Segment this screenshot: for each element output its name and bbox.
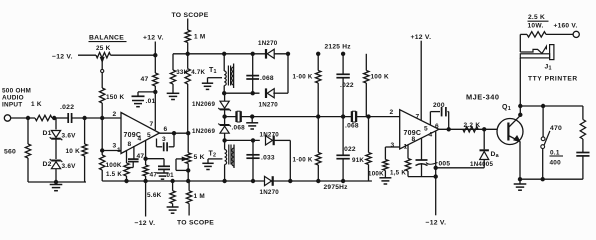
wire collector riser bbox=[519, 60, 522, 117]
svg-text:2125 Hz: 2125 Hz bbox=[325, 44, 352, 51]
pin 3 label U2 bbox=[391, 142, 395, 149]
wire output U2 bbox=[439, 128, 498, 131]
svg-text:D1: D1 bbox=[43, 130, 52, 137]
wire snubber top bbox=[520, 104, 583, 107]
capacitor .033 tank2 bbox=[246, 139, 275, 183]
resistor 33K bbox=[170, 54, 188, 94]
capacitor .022 input bbox=[60, 104, 74, 123]
resistor 47 supply bbox=[141, 73, 159, 86]
wire T2 tap to ground bbox=[208, 159, 222, 163]
pin 2 label U1 bbox=[113, 111, 117, 118]
diode Da 1N4005 bbox=[470, 129, 500, 168]
node input terminal 500-ohm audio bbox=[4, 115, 10, 121]
label +160V bbox=[554, 23, 578, 30]
svg-text:10W.: 10W. bbox=[528, 23, 544, 30]
svg-text:TO SCOPE: TO SCOPE bbox=[177, 220, 214, 227]
wire 470 to cap bbox=[582, 139, 584, 153]
wire riser T2 bbox=[289, 140, 292, 182]
ground T1 tap bbox=[202, 83, 213, 89]
wire pin1 drop bbox=[126, 151, 128, 164]
label J1 bbox=[545, 64, 552, 72]
wire comp U2 bottom bbox=[408, 176, 436, 178]
svg-text:4: 4 bbox=[429, 132, 433, 139]
svg-text:1,5 K: 1,5 K bbox=[390, 170, 406, 177]
svg-text:470: 470 bbox=[550, 125, 562, 132]
capacitor .068 tank1 bbox=[246, 54, 274, 93]
svg-text:Q1: Q1 bbox=[502, 104, 511, 112]
wire emitter drop bbox=[518, 142, 521, 181]
ground 100K U2 bbox=[379, 178, 391, 184]
svg-text:100 K: 100 K bbox=[371, 74, 389, 81]
svg-text:6: 6 bbox=[164, 126, 168, 133]
pin 3 label U1 bbox=[113, 143, 117, 150]
svg-text:.068: .068 bbox=[260, 75, 274, 82]
op-amp U1 709C bbox=[121, 113, 160, 154]
wire -12V bottom rail bbox=[102, 179, 372, 182]
resistor 91K filter2 bbox=[352, 117, 371, 181]
wire 1K to C.022 bbox=[26, 116, 66, 119]
resistor 470 bbox=[550, 120, 586, 140]
label Q1 bbox=[502, 104, 511, 112]
pin 6 label U2 bbox=[435, 123, 439, 130]
transformer T1 core bbox=[228, 66, 230, 86]
transformer T2 core bbox=[229, 145, 231, 165]
svg-text:7: 7 bbox=[416, 114, 420, 121]
resistor 47 comp U1 bbox=[143, 165, 158, 181]
svg-text:1·00 K: 1·00 K bbox=[293, 74, 313, 81]
resistor 1M top bbox=[185, 30, 205, 54]
svg-text:+12 V.: +12 V. bbox=[411, 34, 432, 41]
svg-text:8: 8 bbox=[412, 136, 416, 143]
capacitor .01 bypass bbox=[132, 92, 156, 105]
label -12V bottom bbox=[135, 220, 156, 227]
resistor 150K bbox=[100, 88, 125, 118]
diode 1N270 d bbox=[260, 176, 280, 196]
diode 1N270 c bbox=[260, 132, 280, 146]
wire input to R 1K bbox=[11, 117, 35, 119]
svg-text:.022: .022 bbox=[340, 82, 354, 89]
capacitor 3pF comp U1 bbox=[157, 133, 175, 151]
ground 5.6K bbox=[167, 207, 179, 213]
label TO SCOPE bottom bbox=[177, 220, 214, 227]
wire scope lead bbox=[187, 19, 189, 31]
svg-text:1N270: 1N270 bbox=[258, 40, 278, 47]
wire -12V drop bbox=[145, 181, 147, 217]
pin 5 label U2 bbox=[424, 126, 428, 133]
svg-text:1N2069: 1N2069 bbox=[192, 128, 215, 135]
svg-text:3.6V: 3.6V bbox=[62, 163, 77, 170]
svg-text:.01: .01 bbox=[146, 98, 156, 105]
wire middle rail bbox=[223, 115, 400, 118]
wire plate supply bbox=[520, 34, 527, 52]
wire ground bus left bbox=[28, 181, 86, 183]
wire cap to op-amp pin2 bbox=[73, 116, 121, 119]
transformer T2 primary bbox=[223, 139, 227, 183]
wire 2.2K to base bbox=[483, 128, 486, 131]
transformer T2 secondary bbox=[232, 145, 234, 169]
diode 1N270 a bbox=[258, 40, 278, 59]
pin 6 label U1 bbox=[164, 126, 168, 133]
capacitor .022 filter2 bbox=[336, 117, 356, 183]
label -12V left bbox=[52, 54, 73, 61]
label 0.1 400 bbox=[550, 150, 564, 167]
ground input clipper bbox=[50, 180, 63, 190]
svg-text:TO SCOPE: TO SCOPE bbox=[172, 12, 209, 19]
svg-text:5: 5 bbox=[424, 126, 428, 133]
svg-text:150 K: 150 K bbox=[106, 94, 124, 101]
wire pin3 bbox=[102, 150, 121, 152]
resistor 100K filter2a bbox=[293, 117, 322, 183]
capacitor .068 series right bbox=[345, 111, 359, 129]
resistor 560 bbox=[4, 118, 31, 182]
svg-text:AUDIO: AUDIO bbox=[2, 95, 24, 102]
capacitor .068 series left bbox=[232, 111, 246, 131]
pin 2 label U2 bbox=[390, 109, 394, 116]
wire +12V U2 pin7 bbox=[420, 41, 422, 121]
svg-text:4: 4 bbox=[138, 136, 142, 143]
svg-text:560: 560 bbox=[4, 149, 16, 156]
svg-text:1·00 K: 1·00 K bbox=[293, 157, 313, 164]
ground bypass .01 bbox=[132, 101, 144, 107]
pin 1 label U2 bbox=[404, 144, 408, 151]
svg-text:+12 V.: +12 V. bbox=[143, 35, 164, 42]
ground 33K bbox=[167, 93, 180, 99]
resistor 100K op-amp1 bias bbox=[100, 151, 122, 182]
pin 7 label U1 bbox=[150, 121, 154, 128]
svg-text:.022: .022 bbox=[60, 104, 74, 111]
resistor 100K filter1b bbox=[364, 54, 389, 117]
ground emitter bbox=[514, 179, 527, 190]
svg-text:1 K: 1 K bbox=[31, 101, 42, 108]
svg-text:2.5 K: 2.5 K bbox=[528, 14, 545, 21]
pin 8 label U1 bbox=[128, 141, 132, 148]
wire -12V to 25K bbox=[78, 54, 96, 56]
resistor 1M bottom bbox=[186, 181, 205, 216]
svg-text:INPUT: INPUT bbox=[2, 102, 22, 109]
wire snubber bottom bbox=[520, 178, 583, 181]
svg-text:T1: T1 bbox=[209, 67, 217, 75]
capacitor .01 comp U1 bbox=[146, 159, 175, 179]
svg-text:8: 8 bbox=[128, 141, 132, 148]
wire snubber right drop bbox=[582, 106, 584, 120]
diode 1N270 b bbox=[259, 88, 289, 108]
svg-text:.068: .068 bbox=[232, 125, 246, 132]
svg-text:47: 47 bbox=[137, 153, 145, 160]
svg-text:3.6V: 3.6V bbox=[62, 133, 77, 140]
switch S1 bbox=[541, 106, 550, 179]
wire Da return bbox=[436, 167, 485, 169]
svg-text:J1: J1 bbox=[545, 64, 552, 72]
wire T1 drive rail bbox=[173, 52, 288, 55]
wire 47 to pin7 bbox=[154, 86, 157, 130]
capacitor 200 feedback bbox=[430, 102, 448, 129]
svg-text:1N270: 1N270 bbox=[260, 132, 280, 139]
wire pin4 drop bbox=[144, 141, 147, 166]
wire D1-D2 bbox=[55, 139, 57, 159]
wire T1 bottom row bbox=[223, 92, 260, 95]
diode D1 zener 3.6V bbox=[43, 118, 77, 140]
label 2975 Hz bbox=[324, 184, 349, 191]
svg-text:400: 400 bbox=[550, 160, 562, 167]
transformer T1 secondary bbox=[232, 64, 234, 89]
diode 1N2069 upper bbox=[192, 93, 231, 116]
svg-text:100K: 100K bbox=[368, 171, 384, 178]
svg-text:2.2 K: 2.2 K bbox=[464, 122, 481, 129]
svg-text:5 K: 5 K bbox=[194, 154, 205, 161]
svg-text:MJE-340: MJE-340 bbox=[466, 93, 500, 102]
svg-text:1N2069: 1N2069 bbox=[192, 101, 215, 108]
capacitor .022 filter1 bbox=[336, 52, 354, 117]
resistor 2.2K bbox=[463, 122, 480, 132]
connector J1 phone jack bbox=[520, 45, 554, 60]
op-amp U2 709C bbox=[400, 110, 439, 149]
diode D2 zener 3.6V bbox=[43, 159, 77, 182]
pin 4 label U1 bbox=[138, 136, 142, 143]
label +12V first bbox=[143, 35, 164, 42]
node +160 terminal bbox=[573, 31, 579, 37]
svg-text:005: 005 bbox=[439, 161, 451, 168]
svg-text:−12 V.: −12 V. bbox=[135, 220, 156, 227]
wire pin3 U2 bbox=[385, 147, 399, 160]
wire +12V down bbox=[154, 42, 157, 74]
transformer T1 primary bbox=[224, 54, 226, 93]
resistor 10K bbox=[66, 118, 88, 182]
svg-text:100K: 100K bbox=[106, 162, 122, 169]
wire diode c to riser bbox=[275, 139, 291, 141]
svg-text:1N270: 1N270 bbox=[259, 102, 279, 109]
ground middle rail bbox=[246, 117, 258, 129]
wire output U1 bbox=[160, 132, 190, 135]
svg-text:−12 V.: −12 V. bbox=[52, 54, 73, 61]
svg-text:2: 2 bbox=[390, 109, 394, 116]
capacitor 47pF comp U1 bbox=[127, 146, 145, 168]
ground .01 comp bbox=[157, 173, 168, 179]
resistor 100K filter1a bbox=[293, 52, 321, 117]
svg-text:91K: 91K bbox=[352, 157, 364, 164]
label +12V second bbox=[411, 34, 432, 41]
resistor 1K bbox=[31, 101, 52, 121]
svg-text:TTY PRINTER: TTY PRINTER bbox=[528, 76, 578, 83]
svg-text:200: 200 bbox=[433, 102, 445, 109]
wire upper detector row T2 bbox=[225, 139, 260, 141]
svg-text:2975Hz: 2975Hz bbox=[324, 184, 349, 191]
svg-text:500 OHM: 500 OHM bbox=[2, 88, 31, 95]
svg-text:3: 3 bbox=[113, 143, 117, 150]
pin 4 label U2 bbox=[429, 132, 433, 139]
svg-text:4.7K: 4.7K bbox=[191, 69, 205, 76]
svg-text:1: 1 bbox=[404, 144, 408, 151]
wire detector join riser bbox=[286, 52, 289, 93]
svg-text:7: 7 bbox=[150, 121, 154, 128]
label 2125 Hz bbox=[325, 44, 352, 51]
capacitor .005 comp U2 bbox=[416, 138, 451, 177]
label TO SCOPE top bbox=[172, 12, 209, 19]
resistor 4.7K bbox=[185, 54, 206, 133]
svg-text:Da: Da bbox=[491, 151, 500, 159]
svg-text:−12 V.: −12 V. bbox=[426, 220, 447, 227]
pin 7 label U2 bbox=[416, 114, 420, 121]
capacitor 0.1 400V bbox=[576, 153, 589, 180]
label 500 OHM AUDIO INPUT bbox=[2, 88, 31, 109]
resistor 5.6K bbox=[147, 181, 175, 207]
svg-text:25 K: 25 K bbox=[96, 45, 111, 52]
resistor 100K U2 bias bbox=[368, 160, 388, 178]
svg-text:T2: T2 bbox=[209, 151, 217, 159]
diode 1N2069 lower bbox=[192, 117, 231, 141]
svg-text:.068: .068 bbox=[345, 123, 359, 130]
svg-text:47: 47 bbox=[141, 76, 149, 83]
label T1 bbox=[209, 67, 217, 75]
svg-text:1N4005: 1N4005 bbox=[470, 161, 493, 168]
label TTY PRINTER bbox=[528, 76, 578, 83]
svg-text:.033: .033 bbox=[261, 155, 275, 162]
transistor Q1 MJE-340 bbox=[497, 115, 523, 145]
resistor 1.5K comp U1 bbox=[106, 163, 129, 181]
svg-text:3: 3 bbox=[162, 136, 166, 143]
svg-text:5.6K: 5.6K bbox=[147, 192, 162, 199]
svg-text:.022: .022 bbox=[342, 146, 356, 153]
svg-text:47: 47 bbox=[150, 172, 158, 179]
label 2.5K 10W bbox=[528, 14, 549, 29]
label BALANCE bbox=[89, 35, 127, 42]
svg-text:6: 6 bbox=[435, 123, 439, 130]
svg-text:3: 3 bbox=[391, 142, 395, 149]
potentiometer 5K bbox=[176, 133, 205, 181]
svg-text:1.5 K: 1.5 K bbox=[106, 171, 122, 178]
wire 150K node to pin3 node bbox=[101, 118, 104, 152]
svg-text:10 K: 10 K bbox=[66, 148, 81, 155]
svg-text:2: 2 bbox=[113, 111, 117, 118]
label -12V right bbox=[426, 220, 447, 227]
resistor 1.5K comp U2 bbox=[390, 145, 411, 177]
label MJE-340 bbox=[466, 93, 500, 102]
svg-text:BALANCE: BALANCE bbox=[89, 35, 124, 42]
potentiometer 25K balance bbox=[96, 45, 155, 88]
pin 1 label U1 bbox=[117, 147, 121, 154]
svg-text:D2: D2 bbox=[43, 161, 52, 168]
svg-text:1 M: 1 M bbox=[194, 193, 205, 200]
wire to terminal bbox=[546, 33, 573, 35]
label T2 bbox=[209, 151, 217, 159]
svg-text:+160 V.: +160 V. bbox=[554, 23, 578, 30]
svg-text:1 M: 1 M bbox=[194, 34, 205, 41]
svg-text:1N270: 1N270 bbox=[260, 189, 280, 196]
wire pin4 -12V bbox=[434, 131, 437, 215]
svg-text:5: 5 bbox=[147, 132, 151, 139]
ground T2 tap bbox=[202, 163, 213, 169]
resistor 2.5K bbox=[527, 32, 546, 37]
wire T1 tap to ground bbox=[208, 78, 223, 84]
